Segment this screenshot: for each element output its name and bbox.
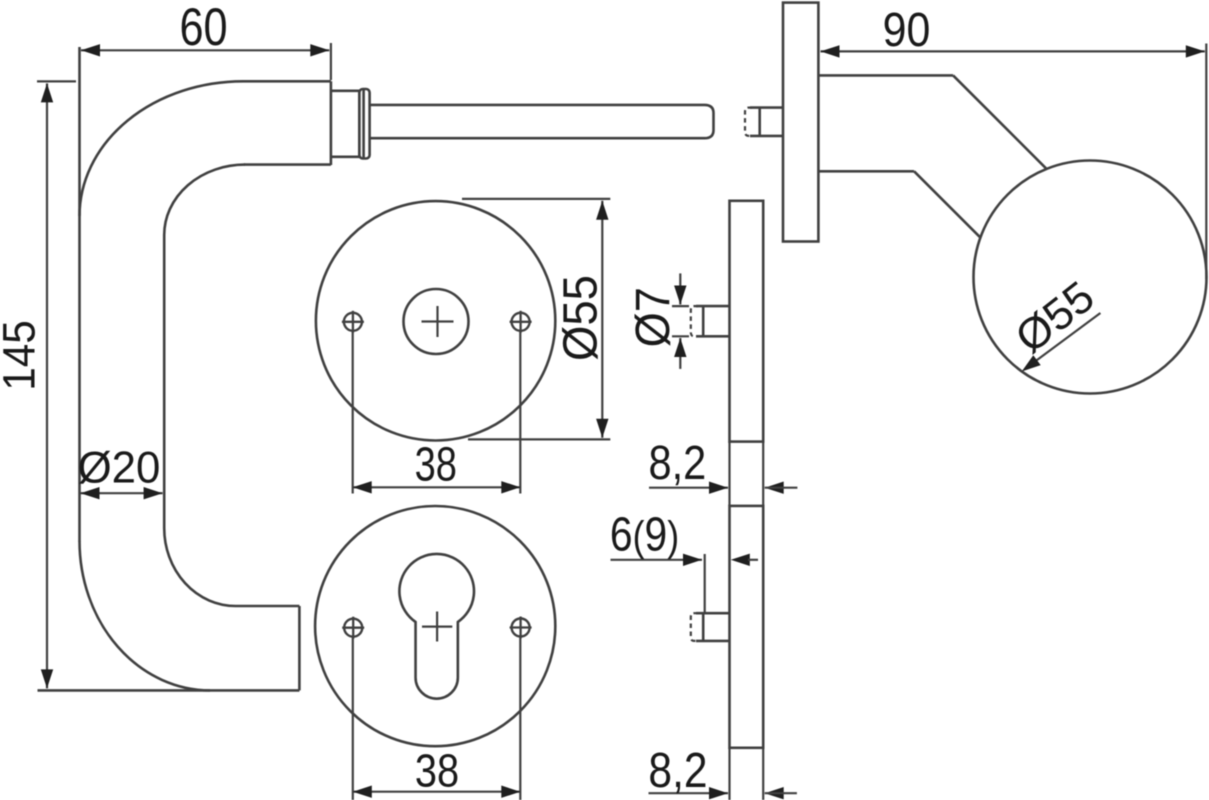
svg-text:6(9): 6(9) <box>610 508 679 561</box>
svg-text:8,2: 8,2 <box>649 435 707 490</box>
svg-text:38: 38 <box>415 438 457 491</box>
svg-text:Ø7: Ø7 <box>626 287 680 347</box>
svg-text:90: 90 <box>883 3 931 57</box>
svg-text:Ø55: Ø55 <box>553 275 606 361</box>
svg-text:Ø20: Ø20 <box>78 443 161 492</box>
svg-text:38: 38 <box>415 745 459 797</box>
svg-text:8,2: 8,2 <box>648 742 707 798</box>
svg-text:145: 145 <box>0 320 45 391</box>
svg-text:60: 60 <box>179 0 227 57</box>
